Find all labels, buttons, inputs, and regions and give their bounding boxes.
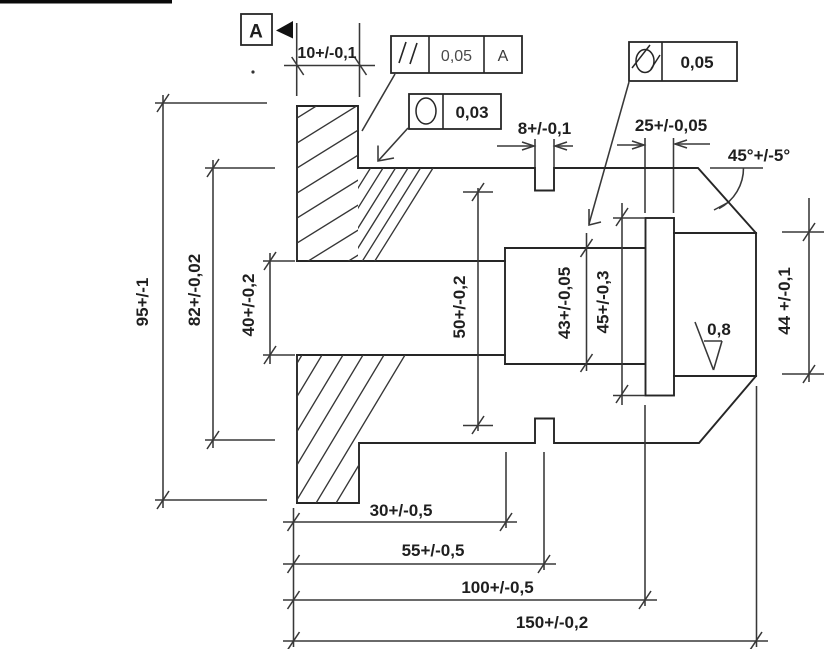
svg-text:44 +/-0,1: 44 +/-0,1	[775, 267, 794, 335]
extension at x645	[644, 405, 646, 606]
runout leader arrowhead	[589, 209, 601, 225]
circularity frame	[409, 94, 501, 129]
hatch lower	[213, 354, 426, 504]
bore 40 bottom line	[297, 354, 505, 356]
stray dot	[251, 70, 254, 73]
groove 45 rectangle	[646, 218, 675, 396]
dimension 43+/-0,05	[555, 233, 593, 372]
svg-text:A: A	[249, 22, 263, 43]
dimension 55+/-0,5	[283, 541, 556, 573]
svg-text:43+/-0,05: 43+/-0,05	[555, 267, 574, 339]
circularity leader arrowhead	[378, 146, 394, 162]
svg-text:100+/-0,5: 100+/-0,5	[461, 578, 533, 597]
extension at x506	[505, 452, 507, 528]
tick right	[355, 57, 367, 75]
tick left	[292, 57, 304, 75]
dimension 30+/-0,5	[283, 501, 517, 531]
part outline bottom	[297, 376, 756, 503]
dimension 45+/-0,3	[594, 203, 629, 405]
dimension 50+/-0,2	[450, 183, 493, 434]
dimension 44+/-0,1	[775, 198, 824, 383]
bore 40 top line	[297, 260, 505, 262]
svg-text:82+/-0,02: 82+/-0,02	[185, 254, 204, 326]
groove bottom extension	[613, 395, 645, 397]
dimension 100+/-0,5	[283, 578, 657, 609]
top-left black bar	[0, 0, 172, 4]
datum A box	[241, 14, 272, 45]
angle dimension 45deg	[710, 146, 790, 210]
groove top extension	[613, 217, 645, 219]
part outline top	[297, 106, 756, 233]
datum triangle	[276, 21, 293, 39]
svg-text:0,05: 0,05	[680, 53, 713, 72]
svg-text:A: A	[498, 48, 509, 65]
bore 43 bottom line	[505, 363, 645, 365]
svg-text:25+/-0,05: 25+/-0,05	[635, 116, 707, 135]
svg-text:8+/-0,1: 8+/-0,1	[518, 119, 571, 138]
circularity leader	[379, 128, 408, 160]
dimension 10+/-0,1 line	[284, 65, 375, 67]
svg-text:45°+/-5°: 45°+/-5°	[728, 146, 790, 165]
dimension 95+/-1	[133, 94, 267, 509]
runout leader	[589, 82, 629, 224]
svg-text:0,8: 0,8	[707, 320, 731, 339]
parallelism frame	[391, 36, 522, 73]
runout frame	[629, 42, 737, 81]
extension at x544	[543, 452, 545, 570]
left face lower segment	[296, 355, 298, 503]
left face upper segment	[296, 106, 298, 261]
bottom extension line at left face	[293, 508, 295, 647]
svg-text:0,05: 0,05	[441, 48, 472, 65]
right face	[755, 233, 757, 376]
svg-text:150+/-0,2: 150+/-0,2	[516, 613, 588, 632]
extension line left of 10-dim	[296, 23, 298, 96]
parallelism leader	[362, 74, 395, 131]
dimension 8+/-0,1	[497, 119, 573, 167]
surface roughness 0,8	[695, 320, 731, 370]
dimension 150+/-0,2	[283, 613, 768, 649]
svg-text:40+/-0,2: 40+/-0,2	[239, 274, 258, 337]
svg-text:50+/-0,2: 50+/-0,2	[450, 276, 469, 339]
dimension 40+/-0,2	[239, 252, 295, 364]
svg-text:95+/-1: 95+/-1	[133, 278, 152, 327]
extension line right of 10-dim	[359, 23, 361, 97]
dimension 82+/-0,02	[185, 159, 275, 449]
extension at x756	[756, 386, 758, 647]
step face 40/43	[504, 248, 506, 364]
bore 43 top line	[505, 247, 645, 249]
svg-text:0,03: 0,03	[455, 103, 488, 122]
svg-text:10+/-0,1: 10+/-0,1	[297, 45, 356, 62]
svg-text:55+/-0,5: 55+/-0,5	[402, 541, 465, 560]
bore 44 bottom line	[674, 375, 756, 377]
hatch flange upper	[297, 76, 365, 293]
bore 44 top line	[674, 232, 756, 234]
hatch hub upper	[312, 168, 433, 262]
dimension 25+/-0,05	[617, 116, 710, 213]
svg-text:30+/-0,5: 30+/-0,5	[370, 501, 433, 520]
svg-text:45+/-0,3: 45+/-0,3	[594, 271, 613, 334]
